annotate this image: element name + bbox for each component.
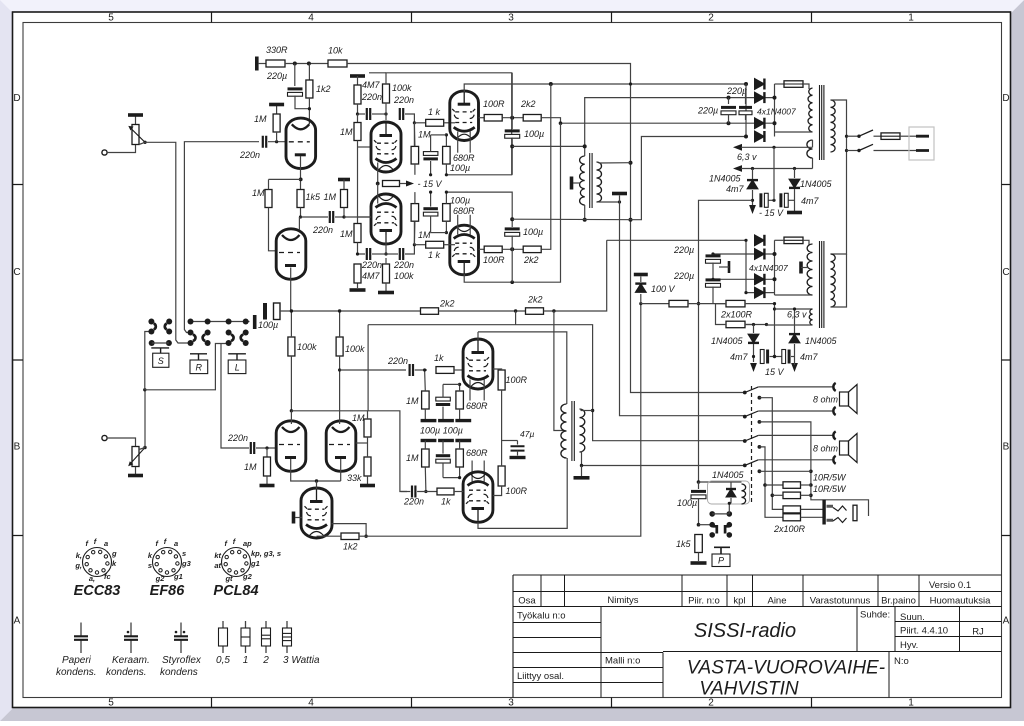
wire 4M7 to V2 grid — [357, 114, 359, 123]
svg-text:4M7: 4M7 — [362, 80, 381, 90]
diode 1N4005 bias b — [794, 169, 796, 179]
resistor 330R — [266, 60, 285, 67]
svg-text:220µ: 220µ — [697, 106, 718, 116]
svg-text:1M: 1M — [352, 413, 365, 423]
svg-text:100R: 100R — [483, 99, 505, 109]
selector pair B1 — [188, 330, 194, 336]
wire primary1 — [831, 100, 847, 254]
svg-text:220n: 220n — [361, 260, 382, 270]
terminator 4M7 upper — [350, 74, 365, 78]
svg-text:1 k: 1 k — [428, 250, 441, 260]
svg-text:4m7: 4m7 — [801, 196, 820, 206]
cathode leads out1 — [457, 132, 459, 153]
resistor 100k V2 plate — [383, 84, 390, 103]
legend resistor 0,5 W — [222, 621, 224, 628]
svg-text:Osa: Osa — [518, 596, 536, 607]
wire B+ line 324 — [515, 311, 517, 325]
wire transformer1 secondary bottom — [775, 131, 813, 133]
relay contact row1 — [709, 511, 715, 517]
wire 6.3v line a — [733, 144, 742, 151]
svg-text:2x100R: 2x100R — [773, 524, 806, 534]
wire transformer1 primary top — [585, 98, 746, 156]
power transformer2 primary — [831, 254, 836, 307]
load resistors 2x100R — [783, 506, 801, 513]
svg-text:4m7: 4m7 — [800, 352, 819, 362]
resistor 4M7 upper — [354, 85, 361, 104]
svg-text:220µ: 220µ — [266, 71, 287, 81]
svg-text:Br.paino: Br.paino — [881, 596, 916, 607]
svg-text:2: 2 — [708, 13, 714, 24]
resistor psu dropper — [669, 300, 688, 307]
svg-text:680R: 680R — [466, 401, 488, 411]
selector pair A1 — [148, 319, 154, 325]
wire row 100V — [641, 303, 669, 305]
svg-text:Piir. n:o: Piir. n:o — [688, 596, 720, 607]
wire 680R cap link — [431, 134, 447, 136]
svg-text:2k2: 2k2 — [520, 99, 536, 109]
svg-text:4: 4 — [308, 698, 314, 709]
svg-text:B: B — [14, 442, 21, 453]
svg-text:C: C — [1002, 267, 1009, 278]
svg-text:g1: g1 — [173, 572, 183, 581]
capacitor 220u psu b — [745, 88, 747, 104]
svg-text:220n: 220n — [403, 497, 424, 507]
svg-text:220n: 220n — [312, 225, 333, 235]
svg-text:Suhde:: Suhde: — [860, 610, 890, 621]
svg-text:D: D — [1002, 93, 1009, 104]
wire bridge2 rows — [746, 253, 775, 255]
capacitor 220n input upper — [263, 136, 266, 148]
svg-text:2: 2 — [262, 655, 269, 666]
svg-text:D: D — [13, 93, 20, 104]
ground transformer2 — [581, 466, 583, 477]
wire L line down — [221, 343, 249, 448]
svg-text:1k5: 1k5 — [306, 192, 322, 202]
svg-text:100k: 100k — [297, 342, 317, 352]
svg-text:4x1N4007: 4x1N4007 — [749, 263, 788, 273]
tube pinout EF86 — [153, 548, 182, 577]
capacitor 100u cathode4 — [436, 454, 450, 457]
terminal bar splitter grid — [292, 512, 296, 524]
triode V4a — [276, 421, 306, 472]
selector pair A2 — [166, 319, 172, 325]
svg-text:kpl: kpl — [733, 596, 745, 607]
wire cathode bus2 — [429, 191, 432, 194]
svg-text:VASTA-VUOROVAIHE-: VASTA-VUOROVAIHE- — [687, 658, 885, 679]
svg-text:s: s — [148, 561, 152, 570]
diode 1N4005 bias a — [752, 169, 754, 180]
svg-text:100k: 100k — [392, 83, 412, 93]
switch blade 4 — [743, 464, 747, 468]
pentode PCL84 output2 — [450, 225, 479, 275]
capacitor 100u cathode3 — [436, 397, 451, 401]
output transformer upper secondary — [597, 162, 602, 202]
resistor 1M leak out2 — [411, 204, 419, 222]
resistor 1k5 — [695, 535, 703, 553]
switch blade 2 — [743, 415, 747, 419]
svg-text:g3: g3 — [181, 559, 192, 568]
resistor 100k V3 lower — [383, 264, 390, 283]
power transformer1 primary — [831, 100, 836, 152]
svg-text:kondens.: kondens. — [56, 667, 97, 678]
output transformer lower primary — [561, 404, 567, 458]
svg-text:kondens: kondens — [160, 667, 198, 678]
svg-text:s: s — [182, 549, 186, 558]
selector pair B2 — [205, 330, 211, 336]
speaker 1 — [840, 392, 849, 406]
svg-text:15 V: 15 V — [765, 367, 785, 377]
potentiometer volume upper — [135, 117, 137, 126]
pentode PCL84 output4 — [463, 472, 493, 523]
resistor 4M7 lower — [354, 264, 361, 283]
selector bus — [191, 321, 250, 323]
capacitor 100u screen1 — [511, 73, 513, 118]
resistor 1M V3 grid — [354, 224, 361, 243]
switch blade 3 — [743, 439, 747, 443]
center tap bar — [799, 262, 803, 274]
svg-text:1k: 1k — [434, 353, 444, 363]
output transformer lower secondary — [580, 409, 585, 452]
terminator 4M7 lower — [357, 264, 359, 288]
svg-text:10R/5W: 10R/5W — [813, 473, 847, 483]
svg-text:100µ 100µ: 100µ 100µ — [420, 426, 463, 436]
svg-text:220µ: 220µ — [673, 271, 694, 281]
resistor 1M V2 grid — [354, 123, 361, 141]
wire V2 cathode to tail — [377, 163, 379, 184]
svg-text:220µ: 220µ — [726, 86, 747, 96]
resistor 2k2 screen2 — [523, 246, 541, 253]
wire nfb to psu riser — [544, 240, 607, 311]
svg-text:4x1N4007: 4x1N4007 — [757, 107, 796, 117]
legend paper capacitor — [80, 623, 82, 637]
wire 6.3v line b — [733, 165, 742, 172]
capacitor 100u relay — [698, 482, 700, 489]
svg-text:VAHVISTIN: VAHVISTIN — [699, 679, 799, 700]
capacitor 47u — [517, 441, 519, 445]
capacitor 4m7 c — [753, 344, 755, 362]
svg-text:1N4005: 1N4005 — [709, 174, 742, 184]
svg-text:C: C — [13, 267, 20, 278]
svg-text:1N4005: 1N4005 — [800, 179, 833, 189]
svg-text:g,: g, — [74, 561, 82, 570]
wire transformer2 secondary bottom — [775, 294, 813, 296]
svg-text:1M: 1M — [254, 114, 267, 124]
pentode V3 — [371, 194, 401, 244]
wire screen node out1 — [502, 117, 523, 119]
svg-text:Keraam.: Keraam. — [112, 655, 150, 666]
resistor 1M a — [265, 190, 272, 208]
wire input to pot — [107, 144, 136, 153]
wire nfb line lower — [280, 310, 421, 312]
selector pair B4 — [243, 330, 249, 336]
resistor 2x100R b — [726, 321, 745, 328]
switch contact 2b — [758, 420, 762, 424]
wire cathode bus1 — [429, 173, 432, 176]
wire 324 to 1M v4b — [367, 325, 369, 411]
svg-text:Nimitys: Nimitys — [607, 595, 638, 606]
bridge2 rails — [745, 240, 747, 292]
svg-text:6,3 v: 6,3 v — [737, 152, 757, 162]
svg-text:N:o: N:o — [894, 656, 909, 667]
power transformer2 heater winding — [809, 309, 812, 325]
svg-text:100R: 100R — [483, 255, 505, 265]
diode 1N4005 c — [745, 324, 754, 326]
pentode PCL84 output1 — [450, 91, 479, 141]
arrows 15V — [750, 363, 757, 372]
svg-text:g: g — [111, 549, 117, 558]
svg-text:RJ: RJ — [972, 627, 984, 638]
switch contact 3b — [758, 445, 762, 449]
svg-text:1N4005: 1N4005 — [711, 336, 744, 346]
svg-text:220µ: 220µ — [673, 245, 694, 255]
svg-text:1 k: 1 k — [428, 107, 441, 117]
switch contact 1b — [758, 396, 762, 400]
svg-text:PCL84: PCL84 — [213, 583, 258, 599]
wire transformer1 primary bottom — [584, 205, 586, 220]
title block — [513, 575, 1002, 607]
resistor 1k grid out3 — [436, 367, 454, 374]
svg-text:Huomautuksia: Huomautuksia — [930, 596, 991, 607]
capacitor 220n V1b anode — [301, 216, 329, 218]
svg-text:1M: 1M — [340, 127, 353, 137]
svg-text:100µ: 100µ — [677, 498, 697, 508]
resistor 1M grid upper — [276, 105, 278, 115]
svg-text:1k2: 1k2 — [343, 542, 358, 552]
capacitor 220u psu a — [728, 98, 730, 104]
wire — [439, 310, 526, 312]
wire line to selector 2 — [184, 142, 259, 333]
svg-text:gt: gt — [224, 574, 233, 583]
resistor 1k2 splitter — [341, 533, 359, 540]
svg-text:g2: g2 — [155, 574, 166, 583]
power transformer1 core — [820, 85, 824, 160]
svg-text:220n: 220n — [361, 92, 382, 102]
svg-text:ap: ap — [243, 539, 252, 548]
wire V1b anode lead — [298, 217, 300, 230]
svg-text:47µ: 47µ — [520, 429, 534, 439]
svg-text:100k: 100k — [345, 344, 365, 354]
capacitor 220n V3 left — [367, 248, 370, 260]
wire fuse to transformer1 — [803, 84, 809, 89]
selector ground dots — [149, 340, 155, 346]
resistor tail -15V — [383, 181, 400, 187]
svg-text:1M: 1M — [324, 192, 337, 202]
svg-text:6,3 v: 6,3 v — [787, 310, 807, 320]
capacitor 220u psu d — [706, 278, 721, 281]
svg-text:A: A — [14, 616, 21, 627]
svg-text:Suun.: Suun. — [900, 612, 925, 623]
svg-text:330R: 330R — [266, 45, 288, 55]
cathode leads out4 — [471, 461, 473, 482]
wire screen node out2 — [502, 248, 523, 250]
svg-text:1: 1 — [908, 13, 914, 24]
resistor 1k grid out2 — [414, 244, 425, 246]
bridge1 diodes 4x1N4007 — [755, 79, 765, 90]
ground 4m7 b — [794, 189, 796, 211]
wire selector S return — [145, 332, 152, 390]
wire splitter right to 1k2 — [332, 524, 367, 537]
R box — [190, 354, 207, 360]
svg-text:1N4005: 1N4005 — [712, 470, 745, 480]
svg-text:P: P — [718, 556, 724, 566]
wire 680R cap link2 — [431, 232, 447, 234]
switch mains b — [847, 150, 860, 152]
svg-text:8 ohm: 8 ohm — [813, 444, 839, 454]
selector pair B3 — [226, 330, 232, 336]
svg-text:1: 1 — [908, 698, 914, 709]
wire secondary1 top — [599, 162, 631, 164]
wire input2 to pot — [107, 438, 136, 448]
wire 6.3 lower bottom — [767, 324, 813, 327]
svg-text:- 15 V: - 15 V — [418, 179, 443, 189]
wire rail to psu corner — [347, 64, 745, 393]
pilot lamp P — [714, 547, 730, 554]
svg-text:100k: 100k — [394, 271, 414, 281]
S box — [151, 348, 169, 353]
capacitor 100u screen2 — [505, 227, 520, 230]
svg-text:220n: 220n — [393, 260, 414, 270]
svg-text:Hyv.: Hyv. — [900, 640, 918, 651]
cathode capacitor bank — [421, 419, 437, 422]
speaker 2 terminals — [833, 431, 835, 439]
legend resistor 1 W — [245, 621, 247, 628]
headphone jack — [822, 500, 825, 525]
svg-text:Malli n:o: Malli n:o — [605, 656, 640, 667]
wire splitter line to psu — [366, 304, 641, 537]
pentode V2 — [371, 122, 401, 172]
fuse mains transformer1 — [784, 81, 803, 88]
svg-text:fc: fc — [104, 572, 111, 581]
terminal bar selector out — [253, 315, 257, 329]
svg-text:kp, g3, s: kp, g3, s — [251, 549, 281, 558]
svg-text:Liittyy osal.: Liittyy osal. — [517, 671, 564, 682]
wire V1b cathode down to nfb node — [290, 268, 292, 311]
capacitor 220u psu c — [713, 253, 746, 255]
legend styroflex capacitor — [180, 623, 182, 637]
resistor 1M leak out4 — [422, 449, 430, 467]
triode V1a — [286, 118, 316, 169]
bridge1 rails — [745, 84, 747, 137]
capacitor 220n to out2 grid — [400, 248, 403, 260]
wire anode line 331 — [478, 332, 567, 404]
wire riser to transformer2 ct — [554, 311, 564, 431]
svg-text:4M7: 4M7 — [362, 271, 381, 281]
wire anode out3 — [477, 332, 479, 340]
wire V3 anode — [385, 235, 387, 254]
resistor 100R screen out1 — [479, 117, 485, 119]
svg-text:10R/5W: 10R/5W — [813, 484, 847, 494]
svg-text:2k2: 2k2 — [527, 295, 543, 305]
svg-text:SISSI-radio: SISSI-radio — [694, 620, 796, 642]
wire bridge1 rows — [746, 97, 775, 99]
svg-text:4m7: 4m7 — [730, 352, 749, 362]
wire anode bus V4 — [290, 409, 293, 412]
svg-text:680R: 680R — [466, 448, 488, 458]
resistor 100R screen out3 — [498, 370, 505, 390]
svg-text:L: L — [235, 362, 240, 372]
svg-text:0,5: 0,5 — [216, 655, 230, 666]
resistor 1M grid lower — [266, 448, 268, 457]
cathode leads out2 — [457, 215, 459, 235]
resistor 100R screen out2 — [479, 248, 485, 250]
capacitor 220n coupling out3 — [340, 369, 406, 371]
resistor 1k grid out1 — [414, 122, 425, 124]
svg-text:1M: 1M — [244, 462, 257, 472]
resistor 2x100R a — [726, 300, 745, 307]
resistor 1k grid out4 — [437, 488, 454, 495]
switch mains a — [847, 135, 860, 137]
wire rail240 — [607, 239, 746, 241]
capacitor 100u coupling lower — [263, 303, 267, 320]
arrow -15V — [749, 205, 756, 214]
svg-text:1k2: 1k2 — [316, 84, 331, 94]
capacitor 220n coupling out4 — [412, 486, 415, 498]
triode V1b — [276, 229, 306, 279]
capacitor 220n V2 left — [356, 112, 359, 115]
svg-text:1M: 1M — [406, 396, 419, 406]
svg-text:1M: 1M — [418, 130, 431, 140]
svg-text:kondens.: kondens. — [106, 667, 147, 678]
svg-text:680R: 680R — [453, 206, 475, 216]
svg-text:Varastotunnus: Varastotunnus — [810, 596, 871, 607]
resistor 1M V4b grid — [364, 419, 371, 437]
svg-text:k,: k, — [76, 551, 82, 560]
svg-text:100µ: 100µ — [450, 163, 470, 173]
resistor 1M b — [341, 190, 348, 208]
capacitor 100u cathode2 — [423, 207, 438, 210]
svg-text:2k2: 2k2 — [439, 299, 455, 309]
wire pot wiper to selector — [143, 141, 146, 144]
svg-text:5: 5 — [108, 13, 114, 24]
capacitor 4m7 b — [779, 193, 782, 207]
capacitor 220n to out1 grid — [400, 108, 403, 120]
resistor 100k plate V4b — [336, 337, 343, 356]
svg-text:Työkalu n:o: Työkalu n:o — [517, 611, 566, 622]
capacitor 100u cathode1 — [423, 152, 438, 156]
load resistor 10R/5W a — [765, 484, 783, 486]
svg-text:Piirt. 4.4.10: Piirt. 4.4.10 — [900, 626, 948, 637]
relay contact row2 — [697, 523, 701, 527]
svg-text:100R: 100R — [506, 375, 528, 385]
svg-text:B: B — [1003, 442, 1010, 453]
svg-text:ECC83: ECC83 — [74, 583, 121, 599]
L box — [228, 354, 246, 360]
svg-text:1M: 1M — [406, 453, 419, 463]
wire V1a cathode — [300, 156, 302, 189]
svg-text:a: a — [104, 539, 108, 548]
capacitor 4m7 a — [752, 190, 754, 206]
svg-text:3: 3 — [508, 698, 514, 709]
svg-text:100R: 100R — [506, 486, 528, 496]
speaker 2 — [840, 441, 849, 455]
resistor 1M leak out1 — [411, 146, 419, 164]
output transformer upper core — [590, 153, 592, 208]
pentode PCL84 output3 — [463, 339, 493, 389]
svg-text:10k: 10k — [328, 46, 343, 56]
resistor 2k2 nfb b — [526, 308, 544, 315]
svg-text:220n: 220n — [227, 433, 248, 443]
potentiometer volume lower — [132, 447, 139, 467]
svg-text:8 ohm: 8 ohm — [813, 395, 839, 405]
svg-text:100µ: 100µ — [450, 196, 470, 206]
wire anode out1 to rail — [464, 84, 746, 92]
power transformer1 secondary — [808, 88, 813, 132]
svg-text:g2: g2 — [242, 572, 253, 581]
wire tail rail left — [269, 178, 301, 180]
wire pot2 wiper — [143, 446, 146, 449]
resistor 1k2 — [308, 64, 310, 81]
svg-text:g1: g1 — [250, 559, 260, 568]
